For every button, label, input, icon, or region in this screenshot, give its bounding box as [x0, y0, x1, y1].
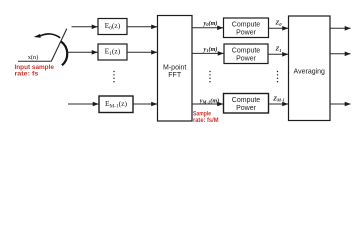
- svg-text:Compute: Compute: [232, 47, 261, 54]
- svg-text:Averaging: Averaging: [294, 68, 326, 75]
- svg-text:M-point: M-point: [163, 65, 186, 72]
- svg-text:FFT: FFT: [168, 72, 182, 79]
- svg-text:Compute: Compute: [232, 97, 261, 104]
- svg-text:rate: fs: rate: fs: [15, 71, 39, 78]
- svg-text:Power: Power: [236, 55, 257, 62]
- svg-text:Power: Power: [236, 29, 257, 36]
- svg-text:E0(z): E0(z): [105, 21, 121, 31]
- svg-text:E1(z): E1(z): [105, 47, 121, 57]
- svg-text:x(n): x(n): [28, 54, 39, 61]
- svg-text:Compute: Compute: [232, 21, 261, 28]
- svg-text:rate: fs/M: rate: fs/M: [193, 117, 219, 124]
- svg-text:y0(m): y0(m): [203, 20, 218, 27]
- svg-text:y1(m): y1(m): [203, 46, 218, 53]
- svg-text:Power: Power: [236, 105, 257, 112]
